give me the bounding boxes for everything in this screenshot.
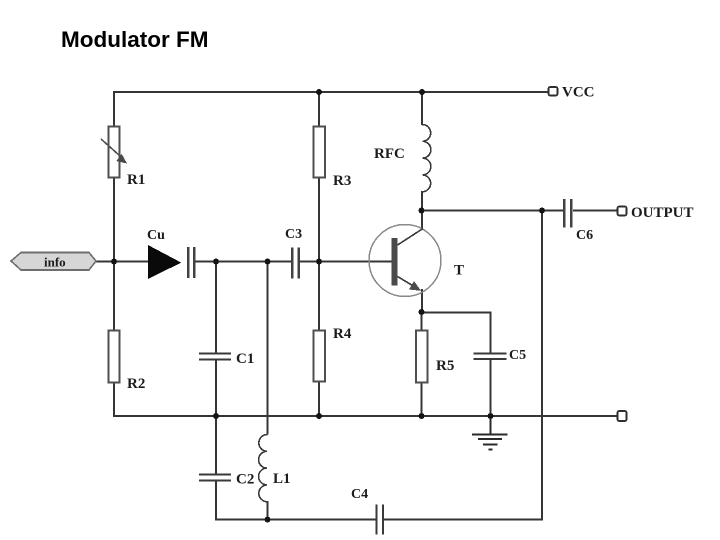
wire C1 upper lead (215, 261, 217, 354)
wire top rail (113, 91, 549, 93)
svg-text:Cu: Cu (147, 228, 165, 243)
svg-text:L1: L1 (273, 471, 291, 487)
inductor L1 coil (259, 434, 268, 501)
wire R5 upper lead (421, 311, 423, 331)
capacitor C3 plates (292, 248, 299, 279)
transistor T (369, 225, 441, 297)
node top rail R3 (316, 89, 322, 95)
svg-text:RFC: RFC (374, 146, 405, 162)
capacitor C5 plates (474, 354, 507, 360)
wire R3 upper lead (318, 91, 320, 127)
terminal OUTPUT (618, 207, 627, 216)
node collector feedback (539, 208, 545, 214)
wire left rail bottom segment (113, 382, 115, 417)
node base wire L1 (265, 259, 271, 265)
wire R5 lower lead (421, 382, 423, 417)
wire right vertical feedback (541, 211, 542, 520)
svg-text:C5: C5 (509, 348, 526, 363)
wire base segment Cu to C3 (194, 261, 291, 263)
capacitor C1 plates (199, 354, 231, 360)
svg-text:C6: C6 (576, 228, 593, 243)
wire ground rail (113, 415, 618, 417)
resistor R1 (variable) body (101, 127, 127, 178)
node bottom wire L1 (265, 517, 271, 523)
terminal VCC (549, 87, 558, 96)
node ground rail R5 (419, 413, 425, 419)
svg-text:C2: C2 (236, 472, 254, 488)
terminal ground rail right (618, 411, 627, 421)
node collector RFC (419, 208, 425, 214)
wire C2 lower lead to bottom wire (216, 481, 376, 520)
node ground rail C1 (213, 413, 219, 419)
resistor R5 body (416, 331, 428, 383)
wire left rail upper segment (113, 91, 115, 127)
svg-text:info: info (44, 255, 66, 270)
wire C2 upper lead (215, 416, 217, 475)
wire base segment C3 to transistor (299, 261, 392, 263)
ground symbol (472, 416, 508, 450)
svg-text:R2: R2 (127, 376, 145, 392)
wire left rail lower segment (113, 261, 115, 331)
node left rail base wire (111, 259, 117, 265)
wire base segment from info (96, 261, 150, 263)
wire R3 lower lead (318, 177, 320, 262)
wire L1 lower lead (267, 501, 269, 520)
svg-text:R4: R4 (333, 326, 352, 342)
wire L1 upper lead (267, 261, 269, 435)
resistor R3 body (314, 127, 326, 178)
svg-text:Modulator FM: Modulator FM (61, 27, 208, 52)
node ground rail R4 (316, 413, 322, 419)
svg-text:C1: C1 (236, 351, 254, 367)
svg-text:VCC: VCC (562, 85, 595, 101)
resistor R2 body (109, 331, 120, 383)
svg-text:R1: R1 (127, 172, 145, 188)
node base wire C1 (213, 259, 219, 265)
capacitor C4 plates (377, 505, 384, 535)
wire R4 lower lead (318, 381, 320, 417)
svg-text:C3: C3 (285, 227, 302, 242)
capacitor C6 plates (564, 199, 571, 228)
node top rail RFC (419, 89, 425, 95)
svg-text:T: T (454, 263, 464, 279)
resistor R4 body (314, 331, 326, 382)
wire RFC upper lead (421, 91, 423, 125)
inductor RFC coil (422, 124, 431, 191)
wire RFC lower lead (421, 191, 423, 211)
wire transistor emitter vertical (421, 289, 423, 313)
capacitor C2 plates (199, 475, 231, 481)
wire collector horizontal (422, 210, 564, 212)
node ground rail C5 (488, 413, 494, 419)
capacitor Cu (polarized, triangle plate) (148, 245, 194, 279)
svg-text:OUTPUT: OUTPUT (631, 205, 694, 221)
wire transistor collector vertical (421, 210, 423, 230)
wire bottom segment C4 to right corner (383, 519, 543, 521)
svg-text:C4: C4 (351, 487, 368, 502)
wire C5 lower lead (490, 360, 492, 418)
wire left rail middle segment (113, 177, 115, 262)
node emitter junction (419, 309, 425, 315)
svg-text:R3: R3 (333, 173, 351, 189)
svg-text:R5: R5 (436, 358, 454, 374)
input tag info (11, 253, 96, 271)
wire emitter to C5 horizontal (422, 313, 491, 354)
node base wire R3 R4 (316, 259, 322, 265)
wire C1 lower lead (215, 360, 217, 418)
wire R4 upper lead (318, 261, 320, 331)
wire C6 to OUTPUT terminal (573, 210, 618, 212)
